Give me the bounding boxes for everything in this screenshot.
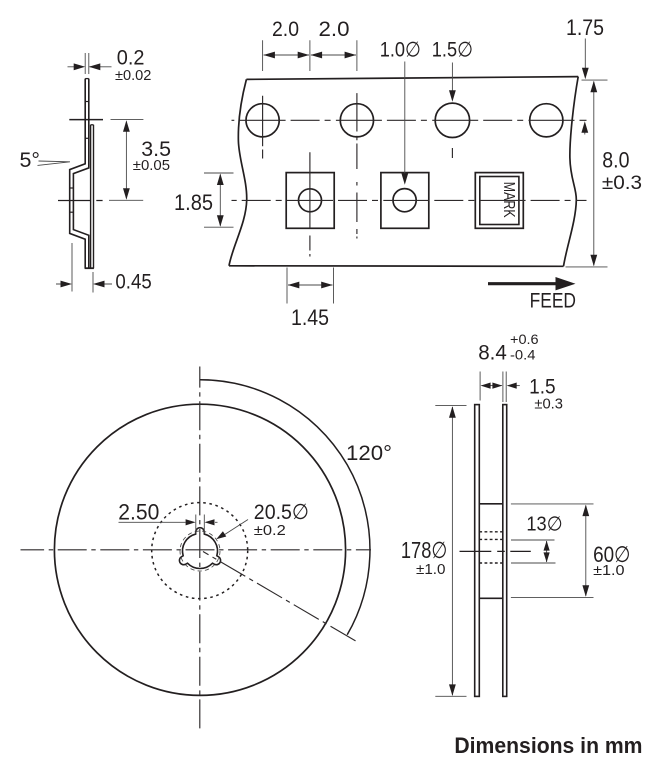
tape bottom cap bbox=[85, 267, 94, 269]
svg-text:FEED: FEED bbox=[530, 290, 576, 313]
5 deg leader lines bbox=[38, 161, 71, 165]
120 deg arc bbox=[200, 380, 370, 635]
tape bottom edge bbox=[229, 265, 564, 268]
dim 2.0 extension lines bbox=[263, 40, 357, 71]
tape top cap bbox=[85, 78, 89, 80]
dim 1.5 arrow tail bbox=[516, 385, 520, 387]
dim 178 line bbox=[451, 407, 453, 695]
120 deg diagonal center line bbox=[203, 552, 358, 643]
mark pocket inner bbox=[480, 177, 519, 225]
dim 3.5 line bbox=[125, 122, 127, 199]
sprocket row center line bbox=[232, 119, 587, 121]
svg-text:1.85: 1.85 bbox=[174, 190, 213, 215]
dim 1.85 extension lines bbox=[204, 173, 234, 227]
dim 2.50 slot ticks bbox=[196, 515, 205, 534]
svg-text:120°: 120° bbox=[346, 441, 392, 465]
svg-text:8.4: 8.4 bbox=[478, 341, 507, 365]
dim 1.75 arrowheads bbox=[582, 68, 589, 80]
svg-text:±0.05: ±0.05 bbox=[133, 158, 170, 174]
dim 0.45 arrowheads bbox=[61, 281, 73, 288]
dim 8.0 extension lines bbox=[566, 80, 608, 267]
dim 3.5 extension lines bbox=[109, 120, 143, 201]
pocket 2 hole bbox=[393, 189, 416, 212]
sprocket hole 1 bbox=[246, 104, 279, 137]
dim 2.0 arrowheads bbox=[263, 52, 275, 59]
dim 60 arrowheads bbox=[582, 505, 589, 516]
dim 8.0 line bbox=[593, 82, 595, 266]
tape profile outer surface bbox=[70, 79, 86, 269]
dim 13 extension lines bbox=[511, 540, 556, 563]
leader 1.0 dia bbox=[404, 62, 406, 175]
vertical center line bbox=[199, 367, 201, 734]
tape tick 1 bbox=[85, 101, 90, 103]
tape tick 2 bbox=[85, 137, 90, 139]
inner dashed circle bbox=[180, 531, 220, 571]
dim 1.45 arrowheads bbox=[288, 282, 300, 289]
tape top edge bbox=[246, 77, 578, 80]
dim 0.45 arrow tails bbox=[56, 283, 112, 285]
side view center line bbox=[460, 550, 531, 552]
svg-text:1.5: 1.5 bbox=[529, 376, 556, 399]
svg-text:2.0: 2.0 bbox=[319, 18, 350, 41]
tape right break edge bbox=[564, 77, 579, 267]
reel outer circle bbox=[54, 404, 345, 695]
hidden hole line 3 bbox=[479, 562, 503, 564]
dim 13 line bbox=[546, 541, 548, 562]
pocket row center line bbox=[232, 199, 587, 201]
sprocket hole 2 bbox=[340, 104, 373, 137]
horizontal center line bbox=[21, 549, 372, 551]
leader 1.5 dia arrowhead bbox=[449, 90, 456, 102]
leader 20.5 arrowhead bbox=[215, 531, 227, 542]
sprocket 3 below dash bbox=[451, 148, 453, 158]
pocket wall tick 2 bbox=[69, 211, 74, 213]
svg-text:8.0: 8.0 bbox=[602, 148, 629, 173]
hub circle dotted bbox=[152, 503, 248, 599]
dim 2.50 arrowheads bbox=[186, 519, 196, 525]
dim 60 extension lines bbox=[511, 504, 594, 598]
svg-text:2.50: 2.50 bbox=[118, 499, 159, 524]
svg-text:1.5∅: 1.5∅ bbox=[432, 39, 473, 62]
dim 178 arrowheads bbox=[449, 406, 456, 418]
svg-text:1.45: 1.45 bbox=[291, 305, 329, 330]
svg-text:+0.6: +0.6 bbox=[510, 332, 539, 347]
tape left break edge bbox=[229, 79, 247, 265]
mark pocket outer bbox=[475, 173, 523, 229]
dim 1.85 arrowheads bbox=[217, 174, 224, 186]
right flange bbox=[503, 405, 507, 697]
dim 3.5 arrowheads bbox=[123, 120, 130, 132]
dim 1.45 line bbox=[288, 284, 333, 286]
sprocket hole 3 bbox=[435, 103, 469, 137]
dim 0.2 arrowheads bbox=[74, 63, 86, 70]
dim 1.85 line bbox=[219, 175, 221, 226]
cover tape back line bbox=[93, 125, 95, 268]
svg-text:2.0: 2.0 bbox=[272, 18, 299, 41]
dim 1.5 arrowhead bbox=[507, 383, 517, 389]
dim 2.50 leader tails bbox=[119, 521, 218, 523]
pocket 1 hole bbox=[299, 189, 322, 212]
sprocket 1 vertical center line bbox=[262, 96, 264, 159]
hub bottom line bbox=[479, 597, 503, 599]
tape profile inner surface bbox=[73, 79, 88, 269]
dim 1.45 extension lines bbox=[287, 268, 334, 304]
dim 2.0 arrow shafts bbox=[264, 54, 356, 56]
svg-text:±0.2: ±0.2 bbox=[254, 523, 286, 539]
svg-text:0.2: 0.2 bbox=[117, 47, 145, 70]
dim 8.4 arrow shaft bbox=[482, 385, 502, 387]
dim 13 arrowheads bbox=[544, 541, 550, 551]
pocket 2 bbox=[381, 173, 429, 229]
svg-text:±0.3: ±0.3 bbox=[602, 172, 642, 194]
upper crossing center line bbox=[69, 119, 103, 121]
leader 1.5 dia bbox=[451, 63, 453, 92]
dim 8.4 arrowheads bbox=[481, 383, 491, 389]
dim 0.2 extension lines bbox=[85, 53, 89, 74]
leader 20.5 dia bbox=[222, 520, 248, 537]
svg-text:±0.3: ±0.3 bbox=[534, 396, 563, 412]
sprocket hole 4 bbox=[530, 104, 563, 137]
pocket wall tick 1 bbox=[69, 187, 74, 189]
svg-text:±0.02: ±0.02 bbox=[115, 68, 151, 84]
pocket 1 bbox=[286, 173, 334, 229]
svg-text:178∅: 178∅ bbox=[401, 537, 447, 563]
svg-text:1.0∅: 1.0∅ bbox=[380, 39, 421, 62]
pocket center line bbox=[58, 200, 103, 202]
hidden hole line 2 bbox=[479, 538, 503, 540]
hidden hole line 1 bbox=[479, 531, 503, 533]
svg-text:13∅: 13∅ bbox=[526, 513, 562, 535]
svg-text:1.75: 1.75 bbox=[566, 15, 604, 40]
dim 178 extension lines bbox=[435, 406, 466, 697]
svg-text:Dimensions in mm: Dimensions in mm bbox=[454, 733, 642, 758]
dim 0.45 extension lines bbox=[72, 243, 93, 293]
cover tape front line bbox=[90, 125, 92, 268]
dim 0.2 arrow tails bbox=[68, 66, 112, 68]
sprocket 2 vertical center line bbox=[356, 93, 358, 238]
dim 60 line bbox=[585, 506, 587, 596]
leader 1.0 dia arrowhead bbox=[401, 173, 408, 185]
svg-text:20.5∅: 20.5∅ bbox=[254, 500, 309, 524]
dim 1.75 lower tail bbox=[584, 132, 586, 135]
hub center hole with drive slots bbox=[179, 528, 220, 569]
pocket 1 vertical center line bbox=[309, 152, 311, 256]
dim 8.4 extension lines bbox=[480, 372, 506, 403]
left flange bbox=[475, 405, 480, 697]
svg-text:0.45: 0.45 bbox=[115, 271, 151, 294]
hub top line bbox=[479, 503, 503, 505]
svg-text:5°: 5° bbox=[20, 149, 41, 172]
svg-text:±1.0: ±1.0 bbox=[416, 562, 446, 578]
dim 1.75 upper line bbox=[584, 39, 586, 69]
feed arrow bbox=[488, 282, 558, 285]
cover tape top cap bbox=[91, 124, 94, 126]
svg-text:±1.0: ±1.0 bbox=[593, 563, 625, 579]
svg-text:-0.4: -0.4 bbox=[510, 348, 536, 363]
dim 8.0 arrowheads bbox=[590, 81, 597, 93]
